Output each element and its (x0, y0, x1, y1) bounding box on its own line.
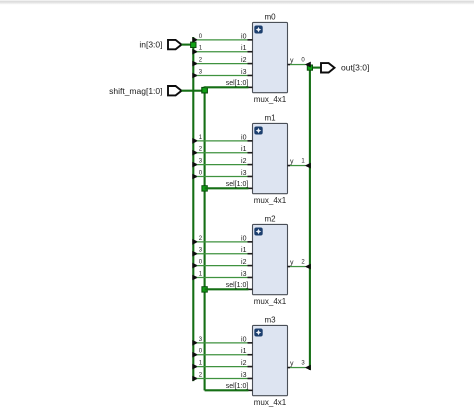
junction: shift bus to m1.sel (202, 186, 207, 191)
svg-text:i2: i2 (241, 360, 247, 367)
pin stub m0.i3 (248, 74, 253, 76)
svg-text:shift_mag[1:0]: shift_mag[1:0] (109, 86, 162, 96)
pin stub m2.i1 (248, 253, 253, 255)
wire: shift_mag to m0.sel (205, 86, 249, 88)
wire: in[2] to m2.i0 (197, 241, 248, 243)
svg-text:in[3:0]: in[3:0] (139, 40, 162, 50)
bus tap 1 from m1.y into out bus (305, 163, 311, 169)
pin stub m2.sel (249, 288, 253, 290)
wire: in[1] to m2.i3 (197, 276, 248, 278)
pin stub m0.i1 (248, 51, 253, 53)
junction: shift bus to m0.sel (202, 88, 207, 93)
svg-text:m2: m2 (264, 214, 276, 223)
svg-text:1: 1 (199, 135, 203, 141)
svg-text:0: 0 (199, 349, 203, 355)
svg-text:2: 2 (199, 147, 203, 153)
bus tap 3 from m3.y into out bus (305, 365, 311, 371)
pin stub m2.i0 (248, 241, 253, 243)
svg-text:i3: i3 (241, 271, 247, 278)
svg-text:3: 3 (199, 69, 203, 75)
wire: in[2] to m3.i3 (197, 377, 248, 379)
bus tap 3 from in bus to m0.i3 (192, 73, 198, 79)
wire: m1.y to out bus (290, 165, 305, 167)
wire: in[0] to m2.i2 (197, 265, 248, 267)
wire: m0.y to out bus (290, 64, 305, 66)
svg-text:i2: i2 (241, 158, 247, 165)
pin stub m2.y (288, 266, 291, 268)
svg-text:3: 3 (199, 248, 203, 254)
svg-text:1: 1 (301, 159, 305, 165)
wire: in[1] to m3.i2 (197, 366, 248, 368)
svg-text:i1: i1 (241, 45, 247, 52)
pin stub m3.i1 (248, 354, 253, 356)
pin stub m3.i3 (248, 377, 253, 379)
svg-text:sel[1:0]: sel[1:0] (226, 282, 249, 289)
svg-text:mux_4x1: mux_4x1 (254, 95, 287, 104)
bus tap 3 from in bus to m1.i2 (192, 162, 198, 168)
svg-text:1: 1 (199, 360, 203, 366)
pin stub m2.i3 (248, 276, 253, 278)
svg-text:1: 1 (199, 46, 203, 52)
pin stub m1.sel (249, 187, 253, 189)
bus tap 0 from in bus to m0.i0 (192, 37, 198, 43)
svg-text:sel[1:0]: sel[1:0] (226, 181, 249, 188)
bus tap 0 from in bus to m3.i1 (192, 352, 198, 358)
wire: shift_mag port to shift bus (182, 90, 205, 92)
svg-text:0: 0 (301, 58, 305, 64)
svg-text:i1: i1 (241, 348, 247, 355)
pin stub m1.i0 (248, 140, 253, 142)
wire: out[3:0] bus vertical (309, 65, 311, 370)
pin stub m0.y (288, 64, 291, 66)
wire: in[3] to m1.i2 (197, 164, 248, 166)
wire: m2.y to out bus (290, 266, 305, 268)
pin stub m0.i2 (248, 63, 253, 65)
wire: out bus to out port (310, 67, 321, 69)
pin stub m1.i3 (248, 175, 253, 177)
wire: in port to in bus (182, 44, 194, 46)
pin stub m3.sel (249, 389, 253, 391)
svg-text:i0: i0 (241, 336, 247, 343)
input port shift_mag[1:0] (168, 86, 182, 95)
bus tap 0 from m0.y into out bus (305, 62, 311, 68)
svg-text:i1: i1 (241, 146, 247, 153)
pin stub m3.y (288, 367, 291, 369)
svg-text:3: 3 (199, 337, 203, 343)
pin stub m2.i2 (248, 265, 253, 267)
bus tap 3 from in bus to m2.i1 (192, 251, 198, 257)
svg-text:mux_4x1: mux_4x1 (254, 196, 287, 205)
bus tap 1 from in bus to m0.i1 (192, 49, 198, 55)
bus tap 2 from in bus to m2.i0 (192, 239, 198, 245)
svg-text:2: 2 (199, 372, 203, 378)
bus tap 3 from in bus to m3.i0 (192, 340, 198, 346)
svg-text:3: 3 (199, 158, 203, 164)
svg-text:y: y (290, 361, 294, 368)
wire: in[3] to m0.i3 (197, 74, 248, 76)
bus tap 1 from in bus to m3.i2 (192, 364, 198, 370)
svg-text:2: 2 (301, 260, 305, 266)
svg-text:y: y (290, 260, 294, 267)
svg-text:3: 3 (301, 361, 305, 367)
wire: in[0] to m1.i3 (197, 175, 248, 177)
bus tap 1 from in bus to m2.i3 (192, 275, 198, 281)
svg-text:m0: m0 (264, 12, 276, 21)
svg-text:2: 2 (199, 236, 203, 242)
svg-text:y: y (290, 58, 294, 65)
svg-text:out[3:0]: out[3:0] (341, 63, 369, 73)
svg-text:0: 0 (199, 259, 203, 265)
mux m1 (mux_4x1) (253, 123, 288, 193)
wire: in[3] to m3.i0 (197, 342, 248, 344)
bus tap 0 from in bus to m2.i2 (192, 263, 198, 269)
wire: in[3] to m2.i1 (197, 253, 248, 255)
junction: in port on in bus (191, 42, 196, 47)
input port in[3:0] (168, 40, 182, 49)
svg-text:i0: i0 (241, 235, 247, 242)
bus tap 2 from in bus to m0.i2 (192, 61, 198, 67)
svg-text:mux_4x1: mux_4x1 (254, 398, 287, 407)
svg-text:i3: i3 (241, 372, 247, 379)
svg-text:i3: i3 (241, 69, 247, 76)
bus tap 1 from in bus to m1.i0 (192, 138, 198, 144)
svg-text:i0: i0 (241, 134, 247, 141)
wire: in[0] to m0.i0 (197, 39, 248, 41)
junction: shift bus to m2.sel (202, 287, 207, 292)
svg-text:i2: i2 (241, 57, 247, 64)
pin stub m3.i2 (248, 366, 253, 368)
svg-text:mux_4x1: mux_4x1 (254, 297, 287, 306)
wire: in[1] to m1.i0 (197, 140, 248, 142)
mux m0 (mux_4x1) (253, 22, 288, 92)
pin stub m0.i0 (248, 39, 253, 41)
svg-text:m3: m3 (264, 315, 276, 324)
pin stub m1.i2 (248, 164, 253, 166)
svg-text:m1: m1 (264, 113, 276, 122)
wire: in[0] to m3.i1 (197, 354, 248, 356)
wire: shift_mag to m3.sel (205, 389, 249, 391)
svg-text:2: 2 (199, 57, 203, 63)
output port out[3:0] (321, 63, 335, 72)
bus tap 2 from in bus to m1.i1 (192, 150, 198, 156)
svg-text:i3: i3 (241, 170, 247, 177)
pin stub m3.i0 (248, 342, 253, 344)
svg-text:i0: i0 (241, 33, 247, 40)
svg-text:sel[1:0]: sel[1:0] (226, 383, 249, 390)
window top edge shading (0, 0, 474, 5)
bus tap 0 from in bus to m1.i3 (192, 174, 198, 180)
wire: shift_mag[1:0] bus vertical (204, 86, 206, 390)
wire: shift_mag to m2.sel (205, 288, 249, 290)
junction: shift_mag port on shift bus (202, 87, 208, 93)
wire: in[2] to m0.i2 (197, 63, 248, 65)
wire: in[3:0] bus vertical (192, 37, 194, 381)
wire: m3.y to out bus (290, 367, 305, 369)
mux m3 (mux_4x1) (253, 325, 288, 395)
junction: out bus at out port wire (307, 65, 312, 70)
pin stub m1.y (288, 165, 291, 167)
wire: shift_mag to m1.sel (205, 187, 249, 189)
svg-text:1: 1 (199, 271, 203, 277)
svg-text:0: 0 (199, 34, 203, 40)
bus tap 2 from m2.y into out bus (305, 264, 311, 270)
svg-text:y: y (290, 159, 294, 166)
svg-text:sel[1:0]: sel[1:0] (226, 80, 249, 87)
svg-text:i1: i1 (241, 247, 247, 254)
wire: in[2] to m1.i1 (197, 152, 248, 154)
svg-text:i2: i2 (241, 259, 247, 266)
pin stub m1.i1 (248, 152, 253, 154)
pin stub m0.sel (249, 86, 253, 88)
svg-text:0: 0 (199, 170, 203, 176)
wire: in[1] to m0.i1 (197, 51, 248, 53)
mux m2 (mux_4x1) (253, 224, 288, 294)
bus tap 2 from in bus to m3.i3 (192, 376, 198, 382)
